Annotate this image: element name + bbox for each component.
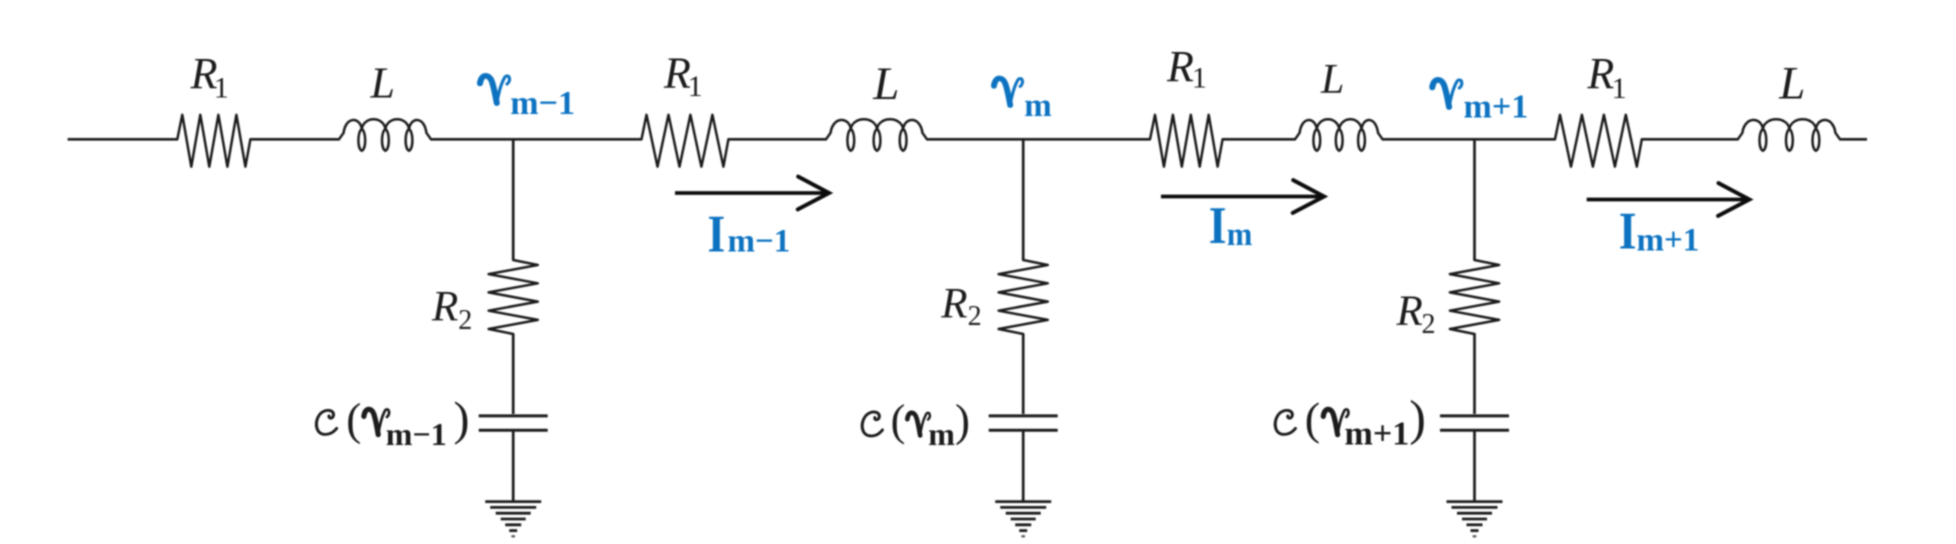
svg-text:L: L [872, 58, 899, 110]
current arrow Im-1 [675, 177, 829, 210]
svg-text:1: 1 [688, 70, 703, 103]
ground (branch m+1) [1447, 502, 1503, 537]
wire capacitor to ground (branch m-1) [512, 432, 515, 502]
svg-text:m+1: m+1 [1464, 88, 1529, 125]
current arrow Im [1161, 180, 1324, 213]
wire from L to node Vm+1 and on [1383, 138, 1555, 141]
inductor L (rightmost) [1738, 119, 1840, 151]
capacitor C (branch m-1) top plate [479, 414, 548, 417]
wire R2 to capacitor (branch m) [1022, 334, 1025, 414]
resistor R2 (branch m+1) [1450, 260, 1499, 334]
svg-text:L: L [1778, 57, 1805, 109]
svg-text:m−1: m−1 [728, 224, 791, 260]
svg-text:(: ( [1305, 393, 1320, 444]
wire capacitor to ground (branch m) [1022, 432, 1025, 502]
svg-text:1: 1 [214, 71, 229, 104]
capacitor C (branch m+1) top plate [1440, 414, 1509, 417]
wire capacitor to ground (branch m+1) [1473, 432, 1476, 502]
label R2 #3 [1396, 288, 1436, 340]
svg-text:2: 2 [968, 301, 982, 332]
svg-text:R: R [1396, 288, 1423, 335]
svg-text:(: ( [346, 395, 361, 445]
node Vm-1: vertical wire from main line [512, 139, 515, 260]
svg-text:L: L [1320, 57, 1344, 103]
wire between R1 and L [1642, 138, 1738, 141]
svg-text:I: I [1619, 201, 1637, 260]
svg-text:m+1: m+1 [1637, 222, 1700, 258]
wire: right lead [1840, 138, 1867, 141]
svg-text:(: ( [891, 396, 906, 445]
inductor L (section m) [826, 119, 927, 151]
resistor R2 (branch m) [999, 260, 1048, 334]
wire R2 to capacitor (branch m-1) [512, 334, 515, 414]
svg-text:R: R [1166, 42, 1194, 91]
wire: left lead [68, 138, 178, 141]
node label Vm+1 (blue) [1432, 80, 1528, 125]
svg-text:): ) [955, 396, 970, 446]
node Vm: vertical wire from main line [1022, 139, 1025, 260]
svg-text:m: m [1227, 216, 1253, 252]
svg-text:2: 2 [1422, 309, 1436, 340]
ground (branch m) [995, 502, 1051, 537]
wire R2 to capacitor (branch m+1) [1473, 334, 1476, 414]
wire from L to node Vm and on [927, 138, 1150, 141]
capacitance label C(Vm+1) [1275, 390, 1426, 453]
capacitor C (branch m+1) bottom plate [1440, 429, 1509, 432]
label R2 #2 [940, 280, 981, 332]
svg-text:2: 2 [458, 305, 472, 336]
wire between R1 and L [728, 138, 826, 141]
wire between R1 and L [250, 138, 339, 141]
label R1 #3 [1166, 42, 1207, 95]
current arrow Im+1 [1587, 183, 1750, 216]
capacitor C (branch m) bottom plate [989, 429, 1058, 432]
resistor R2 (branch m-1) [489, 260, 538, 334]
current label Im (blue) [1209, 196, 1253, 255]
svg-text:): ) [1409, 390, 1426, 446]
resistor R1 (section m-1, left) [177, 115, 250, 167]
inductor L (section m+1) [1295, 119, 1383, 151]
svg-text:m−1: m−1 [510, 85, 575, 122]
current label Im&#8722;1 (blue) [708, 204, 791, 263]
svg-text:m−1: m−1 [386, 416, 447, 452]
inductor L (section m-1) [339, 119, 431, 151]
svg-text:m: m [928, 416, 955, 452]
capacitor C (branch m-1) bottom plate [479, 429, 548, 432]
capacitance label C(Vm) [862, 396, 970, 453]
label R1 #1 [190, 49, 229, 104]
svg-text:1: 1 [1192, 62, 1207, 95]
svg-text:L: L [370, 58, 395, 107]
resistor R1 (rightmost) [1555, 115, 1642, 167]
node label Vm-1 (blue) [480, 76, 575, 122]
node Vm+1: vertical wire from main line [1473, 139, 1476, 260]
svg-text:): ) [454, 393, 470, 446]
capacitance label C(Vm&#8722;1) [316, 393, 469, 452]
svg-text:R: R [1586, 49, 1614, 98]
resistor R1 (section m to m+1) [1150, 115, 1223, 167]
ground (branch m-1) [485, 502, 541, 537]
svg-text:I: I [708, 204, 726, 263]
label R1 #4 [1586, 49, 1626, 105]
label R2 #1 [431, 284, 472, 336]
capacitor C (branch m) top plate [989, 414, 1058, 417]
wire from L to node Vm-1 and on to next R1 [431, 138, 642, 141]
svg-text:R: R [940, 280, 967, 327]
current label Im+1 (blue) [1619, 201, 1699, 260]
svg-text:I: I [1209, 196, 1227, 255]
svg-text:m: m [1024, 88, 1052, 124]
wire between R1 and L [1223, 138, 1295, 141]
resistor R1 (section m-1 to m) [642, 115, 729, 167]
label R1 #2 [663, 48, 703, 103]
svg-text:1: 1 [1612, 72, 1627, 105]
svg-text:m+1: m+1 [1345, 416, 1410, 453]
svg-text:R: R [431, 284, 458, 331]
node label Vm (blue) [994, 78, 1052, 123]
